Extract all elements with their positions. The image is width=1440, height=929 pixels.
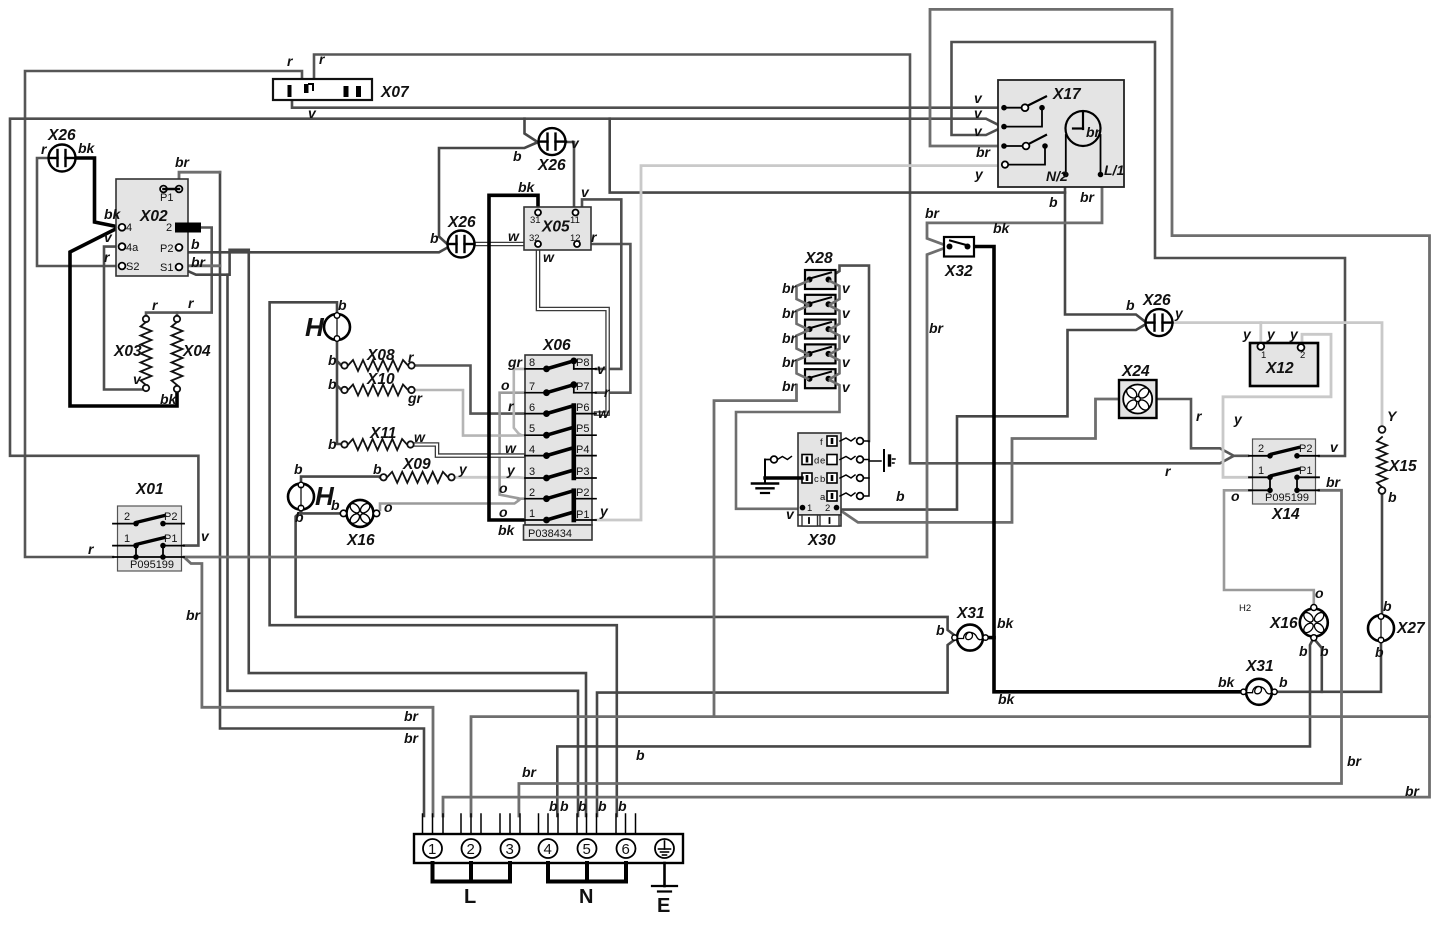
lamp H2 [288,482,314,511]
switch X28 box 5 [805,369,836,388]
svg-text:P095199: P095199 [130,559,174,571]
svg-text:a: a [820,492,826,503]
svg-text:v: v [1330,439,1339,455]
svg-text:b: b [1320,643,1329,659]
fan X16 right [1295,604,1332,641]
wire w X26left to X05-32 [474,242,524,247]
svg-text:br: br [1326,474,1342,490]
svg-text:br: br [782,378,798,394]
svg-text:P095199: P095199 [1265,492,1309,504]
svg-text:br: br [186,607,202,623]
X30 right contacts [840,438,881,500]
svg-text:L: L [464,886,476,908]
wire b X26mid up branch [525,119,538,142]
wire bk X02-4 to X04 bottom [70,227,177,406]
svg-text:bk: bk [1218,674,1236,690]
svg-text:br: br [1080,189,1096,205]
svg-text:4: 4 [544,841,552,858]
capacitor connector X26 left [448,231,475,258]
X30 contact squares right column [802,436,837,501]
svg-text:b: b [896,488,905,504]
svg-text:br: br [1347,753,1363,769]
wire y X26right to X12 pin1 and X15 Y [1172,323,1382,426]
svg-text:y: y [506,462,516,478]
svg-text:c: c [814,474,819,485]
svg-text:X26: X26 [1142,292,1171,309]
wire w X11 to X06 row4 [410,445,525,456]
wire v X17 pin2 merge lower over-top to X14-P2 [952,42,1346,456]
svg-text:v: v [571,135,580,151]
wire o X16mid to X06 row2 [380,500,519,510]
wire br X28 chain bottom to y717 [714,385,797,717]
svg-text:y: y [1289,326,1299,342]
wire bk X31-left right stub [988,636,995,640]
fan X24 [1117,378,1158,419]
svg-text:bk: bk [518,179,536,195]
svg-text:y: y [974,166,984,182]
wire b H2 bottom down to X31-left [296,512,956,637]
wire b N/2 vertical [1065,175,1145,322]
svg-text:b: b [1383,598,1392,614]
pin number labels [124,192,1312,614]
wire b X09 left b stub [379,475,382,478]
svg-text:S2: S2 [126,261,139,273]
svg-text:7: 7 [529,381,535,393]
svg-text:1: 1 [1261,350,1266,361]
capacitor connector X26 right [1146,309,1173,336]
wire r X26tl to S2 [37,158,119,266]
svg-text:b: b [373,461,382,477]
svg-text:8: 8 [529,357,535,369]
svg-text:32: 32 [529,233,540,244]
svg-text:5: 5 [583,841,591,858]
row 6 [525,406,596,417]
wire v X01-P1 to X17 pin2 merge upper [10,119,1001,546]
svg-text:br: br [782,330,798,346]
row 7 [525,382,596,396]
svg-text:1: 1 [428,841,436,858]
resistor X11 [341,439,413,450]
svg-text:X02: X02 [139,208,168,225]
svg-text:w: w [543,249,555,265]
svg-text:11: 11 [570,215,580,226]
svg-text:X12: X12 [1265,360,1294,377]
svg-text:2: 2 [529,487,535,499]
svg-text:X05: X05 [541,219,570,236]
wire r X07 to X14 merge via top right [314,55,1233,464]
wire o X14 row1-lower to X16right top [1224,490,1314,604]
wire bk X32 to X31s [971,247,1241,692]
row 5 [525,427,596,438]
big H labels [305,312,335,511]
svg-text:gr: gr [507,354,524,370]
svg-text:2: 2 [467,841,475,858]
X28 left chain wires [736,281,840,509]
wire b x227 to T5-left feeder [228,275,579,816]
svg-text:X03: X03 [113,343,142,360]
wire b branch down x609 to N/2 and X26 right [610,119,1065,193]
E ground symbol [652,863,677,892]
wire b H2 bottom to X16 [301,509,340,513]
svg-text:5: 5 [529,423,535,435]
thermostat X01 [113,506,184,571]
svg-text:H: H [305,312,325,342]
svg-text:y: y [599,503,609,519]
svg-text:X30: X30 [807,532,836,549]
svg-text:X06: X06 [542,337,571,354]
svg-text:b: b [1375,644,1384,660]
svg-text:bk: bk [104,206,122,222]
resistor X03 [141,316,152,391]
switch stack X28 [736,270,840,509]
wire b X15 bottom to X27 top [1381,492,1384,615]
X06 right bus bar P2-P1 [571,491,576,520]
wire br X17 pin3 over top right down to bottom [443,9,1430,816]
wire gr net X10 to X06 rows 8,5 [412,369,525,436]
svg-text:br: br [782,354,798,370]
wire y X12 pin1 drop [1259,323,1262,343]
wire y X09 to X06 row3 [454,476,525,480]
svg-text:v: v [842,354,851,370]
row 2 [525,491,596,502]
svg-text:X08: X08 [366,347,395,364]
svg-text:b: b [191,236,200,252]
svg-text:P5: P5 [576,423,589,435]
svg-text:b: b [328,376,337,392]
svg-text:bk: bk [498,522,516,538]
svg-text:v: v [104,229,113,245]
svg-text:br: br [522,764,538,780]
wire b X26mid left to X26left via x438 [439,143,537,245]
svg-text:b: b [618,798,627,814]
svg-text:P1: P1 [164,533,177,545]
row 1 [525,512,596,523]
svg-text:P2: P2 [1299,443,1312,455]
wire br X24 left to X30 pin2 [838,399,1119,522]
svg-text:v: v [974,123,983,139]
svg-text:o: o [499,480,508,496]
wire v X26mid to X05 pin 11 [566,142,576,211]
wire b X02 P2/bar south feeders to T1-left [220,172,424,816]
svg-text:br: br [925,205,941,221]
svg-text:2: 2 [1300,350,1305,361]
svg-text:1: 1 [529,508,535,520]
svg-text:b: b [328,436,337,452]
svg-text:bk: bk [160,391,178,407]
svg-text:X11: X11 [369,425,396,442]
switch X32 [944,237,974,257]
wire w white core overlay [474,243,524,245]
svg-text:w: w [508,228,520,244]
ignition box X12 [1250,343,1318,386]
wire r X24 right to X14 merge [1157,399,1234,455]
svg-text:br: br [1405,783,1421,799]
relay box X02 [116,179,201,276]
svg-text:br: br [782,280,798,296]
wire b H2 top to X09 [301,477,380,484]
wire r X08 to X06 row6 [412,366,525,414]
svg-text:P1: P1 [576,509,589,521]
wire r X04 top stub [176,313,179,319]
svg-text:w: w [505,440,517,456]
wire r X05-12 to X06-P7 [581,244,630,393]
capacitor connector X26 middle [539,128,567,155]
svg-text:y: y [1233,411,1243,427]
svg-text:b: b [331,497,340,513]
wire v X28 chain top to X30 contacts [832,266,869,441]
wire b X02-P2 to X26left lower merge [182,247,448,252]
battery symbol [884,450,895,471]
wire bk X26tl to X02-4 [75,158,119,227]
svg-text:br: br [404,708,420,724]
wire o nets [380,393,1314,604]
component name labels [47,84,1426,675]
terminal numbers [428,841,630,858]
svg-text:X27: X27 [1396,620,1426,637]
svg-text:b: b [578,798,587,814]
row 8 [525,358,596,372]
svg-text:e: e [820,456,825,467]
capacitor connector X26 top-left [49,145,76,172]
svg-text:b: b [328,352,337,368]
earth terminal symbol [659,841,671,855]
wire b X27 bottom chain [1275,643,1382,692]
svg-text:L/1: L/1 [1104,162,1124,178]
wire b crimp X08 [337,361,342,366]
svg-text:b: b [294,461,303,477]
svg-text:o: o [501,377,510,393]
svg-text:o: o [1231,488,1240,504]
svg-text:P1: P1 [160,192,173,204]
wire v X05-11 to X06-P8 [577,199,622,369]
svg-text:2: 2 [166,222,172,234]
svg-text:P7: P7 [576,381,589,393]
svg-text:X17: X17 [1052,86,1082,103]
wire color labels [41,51,1421,814]
wire y X12 pin2 loop to X14 row1 [1223,334,1331,477]
svg-text:b: b [820,474,825,485]
svg-text:b: b [636,747,645,763]
svg-text:2: 2 [124,511,130,523]
wire o row2 stub [518,497,525,500]
svg-text:X16: X16 [346,532,375,549]
svg-text:br: br [404,730,420,746]
X06 right bus bar P6-P3 [571,406,576,478]
resistor X10 [341,385,414,396]
svg-text:b: b [1049,194,1058,210]
resistor X04 [172,316,183,392]
terminal block [414,814,683,892]
svg-text:P3: P3 [576,466,589,478]
L bracket [433,863,511,882]
wire b X16r bottom right branch [1315,640,1322,692]
svg-text:d: d [814,456,819,467]
wire r X07 left loop [25,71,302,557]
wire b X30-pin1 to X26 right lower merge [843,325,1145,510]
svg-text:3: 3 [506,841,514,858]
wire r X03 X04 tops to X02 bar2 [146,228,212,320]
svg-text:b: b [598,798,607,814]
wire br S1 straight [182,264,220,267]
connector block X30 [752,433,895,526]
svg-text:w: w [598,405,610,421]
svg-text:P6: P6 [576,402,589,414]
svg-text:b: b [1126,297,1135,313]
svg-text:b: b [560,798,569,814]
svg-text:X32: X32 [944,263,973,280]
wire br X32 crimp lower to X01 row [184,248,946,558]
svg-text:y: y [1174,305,1184,321]
svg-text:X14: X14 [1271,506,1300,523]
svg-text:v: v [201,528,210,544]
wire o X06 row7 to row2 [500,393,525,499]
wire b X16r bottom down to T4-right line [557,640,1312,816]
svg-text:31: 31 [530,215,541,226]
X30 left contact d and ground [752,456,802,493]
svg-text:3: 3 [529,466,535,478]
svg-text:X01: X01 [135,481,164,498]
svg-text:y: y [1266,326,1276,342]
wire b crimp X10 [337,386,342,391]
X17 contact group B [1001,143,1007,149]
svg-text:P2: P2 [164,511,177,523]
connector X07 [273,79,372,100]
svg-text:b: b [1388,489,1397,505]
svg-text:bk: bk [997,615,1015,631]
svg-text:b: b [1279,674,1288,690]
svg-text:o: o [384,499,393,515]
svg-text:br: br [782,305,798,321]
svg-text:v: v [308,105,317,121]
svg-text:b: b [1299,643,1308,659]
svg-text:br: br [929,320,945,336]
resistor X08 [341,360,414,371]
svg-text:1: 1 [124,533,130,545]
resistor X15 [1377,426,1387,494]
svg-text:br: br [175,154,191,170]
svg-text:v: v [786,506,795,522]
wire br X02 P1 to S1 [179,172,220,186]
wire bk X05-31 to X06 row1 [489,195,538,520]
svg-text:b: b [936,622,945,638]
wire w nets double line [410,244,608,456]
svg-text:y: y [458,461,468,477]
wire br X01 jog to T1-center [185,558,433,816]
svg-text:bk: bk [78,140,96,156]
wire v nets [10,42,1345,546]
svg-text:v: v [842,280,851,296]
svg-text:X26: X26 [47,127,76,144]
svg-text:X31: X31 [1245,658,1274,675]
svg-text:4: 4 [126,222,132,234]
switch bank X06 [524,355,593,540]
X17 contact group A [1001,105,1007,111]
lamp X27 [1368,614,1394,643]
X17 clock motor [1066,111,1101,146]
wire br nets [179,9,1430,816]
svg-text:bk: bk [993,220,1011,236]
switch X28 box 4 [805,344,836,363]
N bracket [548,863,626,882]
svg-text:4a: 4a [126,242,139,254]
svg-text:br: br [1086,124,1102,140]
svg-text:y: y [1242,326,1252,342]
svg-text:v: v [597,361,606,377]
wire r merge into X14 pin2 [1233,454,1248,457]
svg-text:X26: X26 [537,157,566,174]
svg-text:2: 2 [1258,443,1264,455]
svg-text:X26: X26 [447,214,476,231]
motor winding X31 left [952,625,988,651]
svg-text:v: v [842,330,851,346]
resistor X09 [380,472,454,483]
svg-text:6: 6 [622,841,630,858]
svg-text:f: f [820,437,823,448]
lamp H1 [324,313,350,342]
svg-text:X24: X24 [1121,363,1150,380]
wire b T5-right to X31-left [597,639,956,816]
svg-text:S1: S1 [160,262,173,274]
svg-text:bk: bk [998,691,1016,707]
wire br T2-left long line joining br vertical [471,717,1430,816]
svg-text:o: o [1315,585,1324,601]
svg-text:v: v [974,90,983,106]
wire b H1 bottom resistor chain [337,339,341,444]
wire b S1 diag to T5-left [182,250,586,816]
svg-text:X07: X07 [380,84,410,101]
wire r net: X07 to X26tl/S2 side and X01 bottom [25,55,1248,558]
svg-text:b: b [513,148,522,164]
switch X28 box 3 [805,320,836,339]
fan X16 middle [340,495,379,531]
wire w X05-32 to X06-P6 [538,250,608,414]
wire v X07 to X17 pin1 [292,98,1004,108]
svg-text:N: N [579,886,593,908]
svg-text:b: b [295,509,304,525]
X28 v chain bottom to X30 pin1 [736,380,840,509]
svg-text:P1: P1 [1299,465,1312,477]
svg-text:w: w [414,429,426,445]
wire bk nets [70,158,1241,692]
wire y nets [454,166,1382,520]
wire br X17 L/1 to X32 and X01 [927,175,1102,246]
svg-text:gr: gr [407,390,424,406]
svg-text:br: br [191,254,207,270]
row 4 [525,448,596,459]
timer X17 [998,80,1124,187]
svg-text:X31: X31 [956,605,985,622]
relay box X05 [524,207,591,250]
svg-text:6: 6 [529,402,535,414]
svg-text:P038434: P038434 [528,528,572,540]
wire y X06-P1 up to X17 y pin [596,166,1002,520]
svg-text:b: b [338,297,347,313]
svg-text:N/2: N/2 [1046,168,1068,184]
svg-text:1: 1 [807,503,812,514]
thermostat X14 [1249,439,1319,504]
svg-text:b: b [549,798,558,814]
svg-text:X16: X16 [1269,615,1298,632]
svg-text:o: o [499,504,508,520]
svg-text:X28: X28 [804,250,833,267]
wire br X14 P1 lower to T3-right [519,490,1342,816]
svg-text:X15: X15 [1388,458,1417,475]
svg-text:v: v [581,184,590,200]
svg-text:P8: P8 [576,357,589,369]
svg-text:4: 4 [529,444,535,456]
wire v X02-4a to X03 bottom [104,247,142,390]
svg-text:X09: X09 [402,456,431,473]
